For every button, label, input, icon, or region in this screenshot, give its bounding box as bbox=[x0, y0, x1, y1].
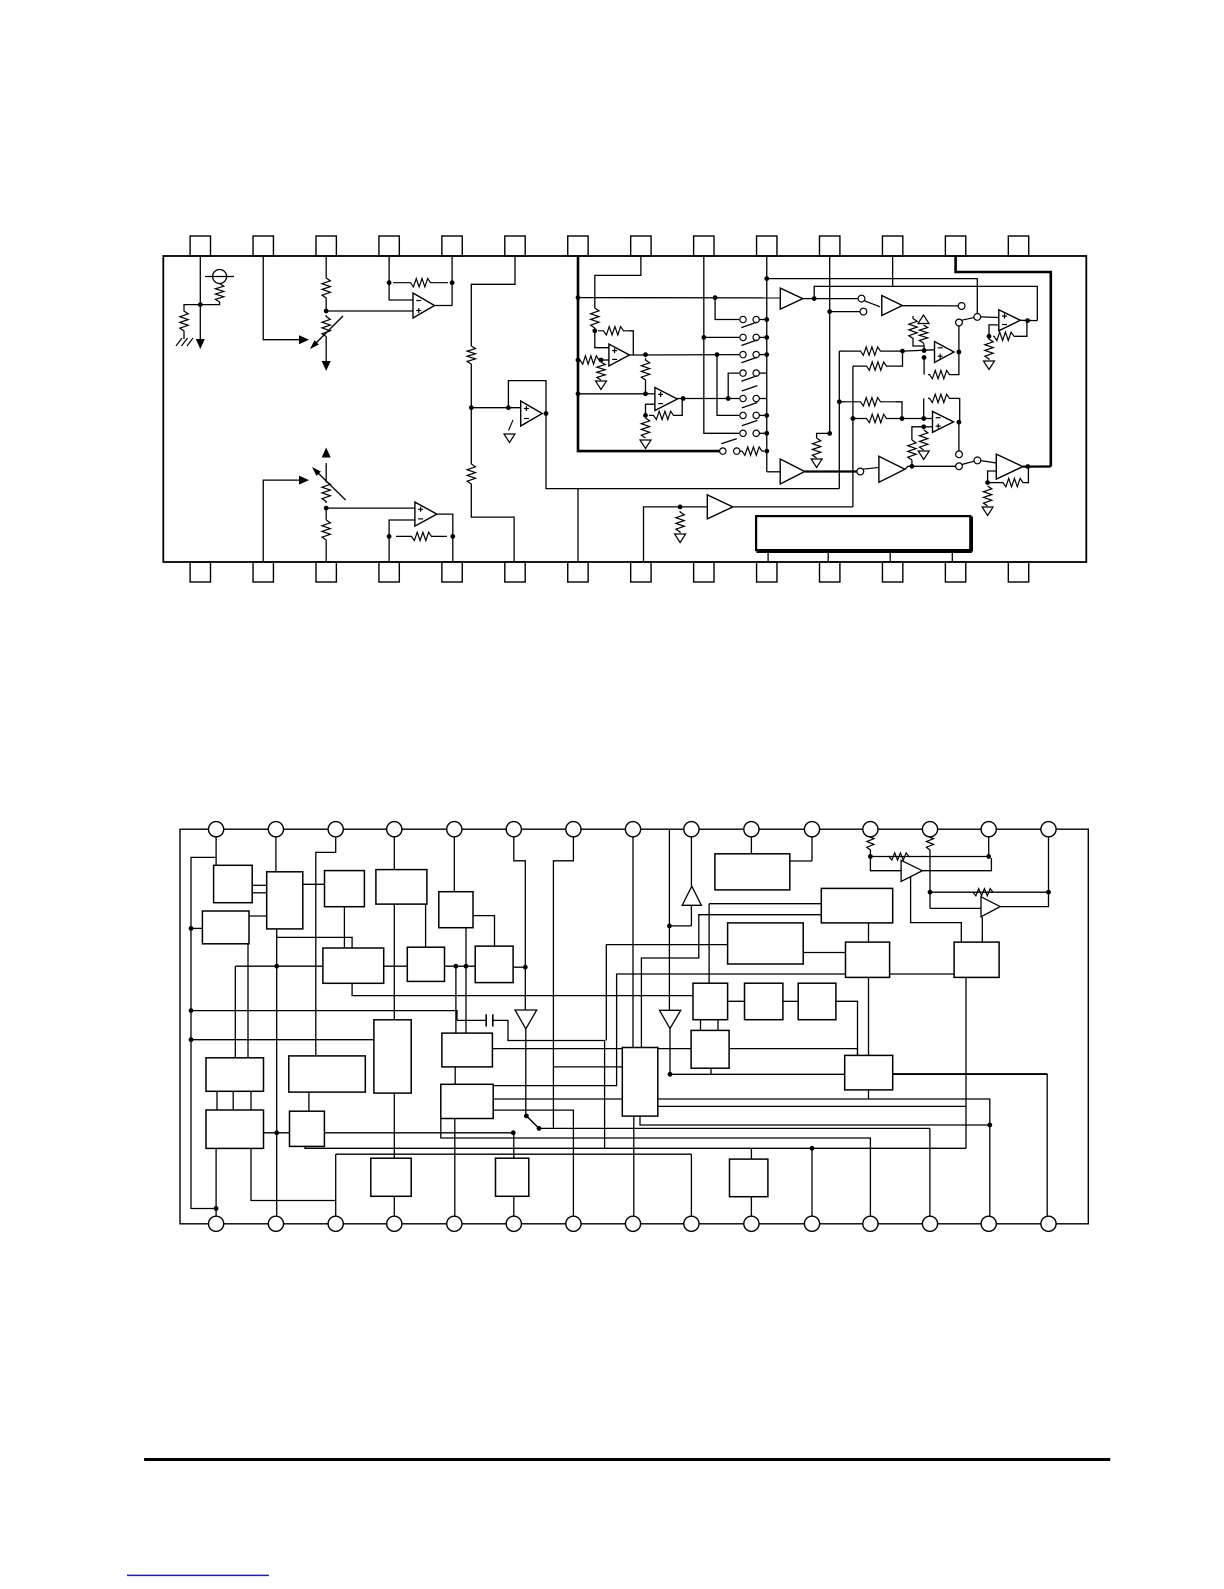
wire S1 bottom bbox=[868, 1090, 870, 1099]
wire amp up out bbox=[690, 829, 692, 886]
wire to U2+ bbox=[471, 407, 520, 409]
wire B3-C3 bbox=[473, 916, 495, 947]
wire T14 riser bbox=[988, 829, 990, 856]
wire R7 node bbox=[594, 328, 596, 331]
wire S10 to U7 bbox=[981, 316, 999, 319]
wire K3-L riser bbox=[308, 1092, 310, 1111]
pin 1 (top) bbox=[190, 236, 210, 256]
switch S7 bbox=[740, 430, 746, 436]
pin 17 (bottom) bbox=[316, 562, 336, 582]
wire amp2 in bbox=[930, 907, 981, 909]
resistor R3 bbox=[322, 277, 330, 299]
wire R5 down bbox=[470, 364, 472, 408]
net cap path bbox=[493, 1020, 605, 1148]
pin 28 (bottom) bbox=[1008, 562, 1028, 582]
U7 fb resistor R15 bbox=[993, 332, 1015, 340]
switch S3 bbox=[740, 351, 746, 357]
node U7 fb bbox=[987, 334, 992, 339]
block C2 bbox=[407, 947, 444, 981]
node UA minus bbox=[922, 348, 927, 353]
wire T15 riser bbox=[1048, 829, 1050, 892]
node b3 bbox=[324, 506, 329, 511]
node N1 bbox=[812, 296, 817, 301]
node S7 bbox=[764, 431, 769, 436]
wire C2 top bbox=[425, 904, 427, 947]
switch S6 right lead bbox=[759, 414, 766, 416]
row D resistor R21 bbox=[853, 418, 857, 420]
wire R3 to node3 bbox=[325, 299, 327, 311]
node h5 b11 bbox=[810, 1146, 815, 1151]
buffer A7 bbox=[707, 495, 733, 519]
block M1 bbox=[442, 1033, 493, 1067]
pin 16 (bottom) bbox=[253, 562, 273, 582]
net band h5 bbox=[305, 1146, 966, 1148]
wire S1 right bbox=[893, 1073, 1047, 1075]
terminal T6 (top) bbox=[506, 822, 521, 837]
wire T13 col bbox=[929, 857, 931, 909]
wire T13 node bbox=[929, 851, 931, 857]
S8 resistor R14 bbox=[740, 447, 764, 455]
block N3 bbox=[730, 1159, 768, 1197]
wire b3 riser bbox=[335, 1154, 337, 1224]
block S1 bbox=[845, 1055, 893, 1090]
res pair RV2 bbox=[918, 315, 929, 324]
op-amp U7 bbox=[999, 310, 1021, 331]
node U3 o1 bbox=[643, 352, 648, 357]
res amp2 fb bbox=[972, 889, 994, 896]
block H1 bbox=[693, 983, 728, 1020]
bus pin13 (thick) bbox=[956, 256, 1051, 467]
block stub 3 bbox=[889, 550, 891, 562]
terminal T22 (bottom) bbox=[566, 1216, 581, 1231]
wire A7 out bbox=[733, 506, 853, 508]
node S1 bbox=[764, 317, 769, 322]
block A3 bbox=[202, 911, 249, 944]
pin 23 (bottom) bbox=[694, 562, 714, 582]
wire row2 feed bbox=[704, 336, 739, 338]
amp1 triangle bbox=[901, 860, 922, 881]
wire b14 riser bbox=[989, 1125, 991, 1224]
wire A5 out bbox=[803, 298, 858, 300]
node B bbox=[599, 358, 604, 363]
block T2 bbox=[622, 1048, 658, 1117]
block P5 bbox=[954, 942, 999, 977]
terminal T15 (top) bbox=[1041, 822, 1056, 837]
node U2 fb bbox=[506, 405, 511, 410]
resistor R7 bbox=[591, 308, 599, 328]
node rowA bbox=[900, 349, 905, 354]
block A1 bbox=[214, 865, 253, 902]
net S1 top bbox=[857, 1049, 859, 1056]
terminal T7 (top) bbox=[566, 822, 581, 837]
block N2 bbox=[496, 1158, 529, 1196]
wire terminal10 drop bbox=[750, 829, 752, 854]
node b4 bbox=[387, 534, 392, 539]
wire U3 out bbox=[629, 354, 739, 356]
U4 minus wire bbox=[646, 404, 655, 415]
wire pin5/U1out bbox=[451, 256, 453, 306]
wire R1 to ground bbox=[183, 334, 185, 339]
pin 5 (top) bbox=[442, 236, 462, 256]
terminal T16 (bottom) bbox=[209, 1216, 224, 1231]
node UA out bbox=[957, 350, 962, 355]
net band h6 bbox=[336, 1153, 692, 1155]
wire C1-C2 link bbox=[384, 965, 408, 967]
buffer A5 bbox=[780, 288, 803, 309]
switch S12 contact b bbox=[956, 463, 963, 470]
terminal T28 (bottom) bbox=[922, 1216, 937, 1231]
rail U7 fb bbox=[814, 286, 1037, 320]
switch S3 right lead bbox=[759, 354, 766, 356]
block C1 bbox=[323, 948, 384, 983]
block P4 bbox=[728, 923, 804, 964]
fb line amp2 bbox=[930, 891, 1049, 893]
res pair RV1 bbox=[909, 316, 917, 341]
net line L1 bbox=[670, 1074, 1047, 1224]
wire terminal4 drop bbox=[393, 829, 395, 869]
wire row6 feed bbox=[717, 355, 739, 416]
switch SW1 lever bbox=[526, 1116, 539, 1129]
net band h4 bbox=[441, 1119, 871, 1224]
net terminal6 col bbox=[514, 829, 526, 1010]
pin 7 (top) bbox=[568, 236, 588, 256]
res terminal12 bbox=[867, 829, 874, 851]
switch S10 contact b bbox=[956, 319, 963, 326]
wire pin6 col lower bbox=[470, 408, 472, 464]
terminal T29 (bottom) bbox=[981, 1216, 996, 1231]
wire nodeA to U3+ bbox=[595, 331, 609, 348]
terminal T21 (bottom) bbox=[506, 1216, 521, 1231]
ground R13 bbox=[640, 440, 651, 449]
pin 21 (bottom) bbox=[568, 562, 588, 582]
block K3 bbox=[289, 1056, 366, 1092]
net band h7 bbox=[658, 1105, 966, 1107]
node amp2 in bbox=[928, 890, 933, 895]
wire H2-H3 bbox=[783, 1000, 798, 1002]
node pin11 b bbox=[827, 431, 832, 436]
wire node to R1 bbox=[184, 305, 200, 308]
wire K2-L bbox=[264, 1132, 290, 1134]
node pin1 bbox=[198, 302, 203, 307]
net edge tap bbox=[668, 829, 670, 1010]
net terminal1 loop bbox=[191, 829, 216, 1208]
wire A8 out thick bbox=[805, 470, 857, 472]
resistor R11 bbox=[641, 358, 649, 382]
pin 12 (top) bbox=[882, 236, 902, 256]
op-amp UB bbox=[933, 411, 954, 432]
wire b9 riser bbox=[690, 1154, 692, 1224]
wire amp1 out bbox=[922, 858, 991, 871]
wire bottom pin8 bbox=[644, 507, 708, 562]
switch S1 bbox=[740, 316, 746, 322]
wire P1-T11 bbox=[790, 860, 812, 862]
pin 3 (top) bbox=[316, 236, 336, 256]
bus pin7 (thick) bbox=[578, 256, 721, 451]
U6 fb bbox=[988, 471, 997, 483]
wire A2-B1 bbox=[303, 883, 325, 885]
node S2 bbox=[764, 335, 769, 340]
pin 19 (bottom) bbox=[442, 562, 462, 582]
VR2 tail arrow bbox=[325, 463, 327, 480]
net terminal8 col bbox=[632, 829, 634, 1047]
UA fb bbox=[923, 358, 925, 375]
node sw1 b bbox=[537, 1126, 542, 1131]
net bias line left bbox=[235, 965, 330, 967]
net band h2 bbox=[493, 1099, 990, 1125]
block B1 bbox=[325, 871, 365, 907]
wire b11 riser bbox=[811, 1148, 813, 1224]
wire pin4 bbox=[388, 256, 390, 283]
resistor R5 bbox=[467, 346, 475, 364]
pin 14 (top) bbox=[1008, 236, 1028, 256]
wire U1 out bbox=[435, 305, 453, 307]
wire UA out up bbox=[958, 326, 960, 352]
wire pin12 riser bbox=[892, 256, 894, 286]
wire K1-K2 b bbox=[232, 1091, 234, 1110]
ground R25 bbox=[675, 534, 686, 543]
wire amp2 out bbox=[1000, 892, 1048, 906]
net sw1 out bbox=[539, 1127, 930, 1129]
node B3 col a bbox=[464, 964, 469, 969]
block H3 bbox=[798, 983, 836, 1020]
wire H1-H4 a bbox=[700, 1020, 702, 1031]
wire b3 bbox=[325, 508, 327, 520]
wire rowA to UA bbox=[903, 350, 935, 351]
wire P5 top bbox=[981, 917, 983, 942]
wire nodeB U3- bbox=[601, 359, 609, 361]
wire B2 bottom col bbox=[393, 904, 395, 1020]
wire nodeC bus bbox=[645, 382, 647, 394]
wire pin10 to top switch bbox=[767, 279, 978, 314]
terminal T1 (top) bbox=[209, 822, 224, 837]
wire pin11 gnd res bbox=[817, 433, 830, 438]
terminal T24 (bottom) bbox=[684, 1216, 699, 1231]
block K1 bbox=[206, 1058, 264, 1092]
wire A1 top bbox=[215, 857, 217, 865]
wire U4 out bbox=[677, 398, 739, 400]
terminal T27 (bottom) bbox=[863, 1216, 878, 1231]
block D1 bbox=[374, 1020, 411, 1093]
wire pin9 col bbox=[704, 256, 739, 433]
node R22 bbox=[910, 464, 915, 469]
node pin3 bbox=[324, 309, 329, 314]
op-amp U6 bbox=[996, 454, 1023, 479]
wire pin10 collector bbox=[766, 256, 768, 472]
wire U8 minus bbox=[389, 520, 415, 536]
terminal T8 (top) bbox=[625, 822, 640, 837]
UB plus wire bbox=[924, 426, 933, 428]
node V1 rowC bbox=[837, 399, 842, 404]
resistor R8 bbox=[598, 327, 629, 335]
wire row1 feed bbox=[715, 298, 739, 320]
block diagram border bbox=[180, 829, 1088, 1224]
amp tri up bbox=[682, 886, 701, 905]
wire H4 bottom bbox=[710, 1068, 712, 1074]
feedback resistor R4 bbox=[393, 279, 448, 287]
pin 26 (bottom) bbox=[882, 562, 902, 582]
node pin4 bbox=[387, 280, 392, 285]
pin 18 (bottom) bbox=[379, 562, 399, 582]
switch S11 contact bbox=[857, 468, 864, 475]
fb resistor R27 bbox=[396, 532, 447, 540]
node pin11 a bbox=[827, 309, 832, 314]
net B3 col bbox=[465, 927, 467, 1033]
node C bbox=[643, 391, 648, 396]
block H2 bbox=[745, 983, 783, 1020]
wire T11 riser bbox=[811, 829, 813, 861]
switch S2 bbox=[740, 334, 746, 340]
terminal T25 (bottom) bbox=[744, 1216, 759, 1231]
wire U2 out down bbox=[546, 414, 839, 489]
wire U6 out bbox=[1023, 465, 1051, 467]
terminal T11 (top) bbox=[804, 822, 819, 837]
wire R2 to node bbox=[200, 302, 219, 305]
buffer A8 bbox=[780, 459, 805, 484]
wire P3 bottom bbox=[868, 977, 870, 1055]
wire terminal5 drop bbox=[453, 829, 455, 892]
ground R10 bbox=[596, 381, 607, 390]
node UB minus bbox=[921, 416, 926, 421]
terminal T18 (bottom) bbox=[328, 1216, 343, 1231]
node C3 right bbox=[523, 965, 528, 970]
node U7 out bbox=[1025, 318, 1030, 323]
terminal T9 (top) bbox=[684, 822, 699, 837]
pin 27 (bottom) bbox=[945, 562, 965, 582]
vert col V1 bbox=[838, 351, 840, 489]
wire bottom pin3 bbox=[325, 540, 327, 562]
node A7 in bbox=[678, 505, 683, 510]
wire pin11 col bbox=[829, 256, 831, 433]
wire P4-P3 bbox=[803, 952, 845, 954]
pin 10 (top) bbox=[757, 236, 777, 256]
UB fb top bbox=[923, 398, 925, 418]
block B3 bbox=[439, 892, 473, 928]
block H4 bbox=[691, 1030, 729, 1068]
node S6 bbox=[764, 413, 769, 418]
wire M1-M2 bbox=[454, 1067, 456, 1084]
wire P5 bottom bbox=[965, 977, 967, 1148]
terminal T12 (top) bbox=[863, 822, 878, 837]
resistor R13 bbox=[641, 418, 649, 438]
node loop tee bbox=[189, 1008, 194, 1013]
switch S4 right lead bbox=[759, 372, 766, 374]
block P1 bbox=[715, 854, 790, 890]
wire N1 bottom bbox=[393, 1196, 395, 1224]
node bias A2 bbox=[274, 964, 279, 969]
IC body outline bbox=[163, 256, 1086, 562]
wire T12 node bbox=[869, 851, 871, 857]
node UB out bbox=[957, 420, 962, 425]
U2 ground switch bbox=[509, 420, 514, 431]
wire C2 down bbox=[455, 966, 457, 1033]
node sw1 a bbox=[524, 1114, 529, 1119]
block B2 bbox=[376, 870, 427, 905]
wire P2-P3 bbox=[868, 923, 870, 942]
op-amp U1 bbox=[413, 293, 435, 318]
op-amp U4 bbox=[655, 388, 678, 411]
wire row4 feed bbox=[728, 373, 739, 398]
wire tap to amp bbox=[669, 925, 691, 927]
resistor R23 bbox=[920, 430, 928, 450]
amp2 triangle bbox=[981, 897, 1000, 917]
wire A1-A2 a bbox=[252, 884, 267, 886]
UB plus branch bbox=[912, 427, 924, 440]
current sink arrow I1 bbox=[199, 305, 201, 339]
terminal T30 (bottom) bbox=[1041, 1216, 1056, 1231]
resistor R10 bbox=[597, 362, 605, 380]
pin 15 (bottom) bbox=[190, 562, 210, 582]
block stub 2 bbox=[827, 550, 829, 562]
node amp1 out bbox=[986, 854, 991, 859]
node bus a bbox=[576, 295, 581, 300]
resistor R26 bbox=[322, 520, 330, 540]
node b14 junction bbox=[987, 1123, 992, 1128]
node U2 in bbox=[469, 405, 474, 410]
wire pin4 to U1- bbox=[389, 283, 413, 300]
node pin9 row2 bbox=[701, 335, 706, 340]
net K2 tail bbox=[251, 1148, 335, 1200]
block C3 bbox=[475, 946, 513, 983]
wire N3 bottom bbox=[750, 1197, 752, 1224]
node V2 rowD bbox=[851, 416, 856, 421]
wire K1-K2 a bbox=[216, 1091, 218, 1110]
switch S11 lever bbox=[863, 467, 880, 469]
row B resistor R19 bbox=[853, 365, 857, 367]
wire pin11 to S9b bbox=[830, 311, 860, 313]
U2 feedback loop bbox=[508, 381, 546, 414]
resistor R17 bbox=[812, 438, 820, 458]
wire amp1 down bbox=[911, 871, 962, 942]
terminal T13 (top) bbox=[922, 822, 937, 837]
net V1 line bbox=[525, 1029, 527, 1115]
node U3 o2 bbox=[715, 352, 720, 357]
switch S12 contact a bbox=[956, 451, 963, 458]
wire A1-A2 b bbox=[252, 892, 267, 894]
wire nodeC U4+ bbox=[646, 393, 655, 395]
wire N2 bottom bbox=[513, 1196, 515, 1224]
switch S4 bbox=[740, 370, 746, 376]
pin 11 (top) bbox=[820, 236, 840, 256]
terminal T23 (bottom) bbox=[625, 1216, 640, 1231]
switch S10 lever bbox=[962, 318, 974, 321]
fb line amp1 bbox=[870, 856, 988, 858]
wire A3 left bbox=[191, 927, 202, 929]
wire H1 col bbox=[708, 904, 710, 984]
net T2 stub bbox=[633, 1116, 635, 1224]
switch S8 bbox=[720, 448, 726, 454]
net delay line bbox=[191, 1011, 457, 1021]
node rail bbox=[713, 295, 718, 300]
pin 25 (bottom) bbox=[820, 562, 840, 582]
res terminal13 bbox=[926, 829, 933, 851]
net long a bbox=[606, 945, 727, 1041]
res amp1 fb bbox=[888, 853, 910, 860]
resistor R24 bbox=[983, 486, 991, 506]
wire K2 bottom bbox=[215, 1148, 217, 1223]
node bus b bbox=[576, 358, 581, 363]
wire N3 top bbox=[750, 1148, 752, 1159]
switch S9 contact b bbox=[860, 308, 867, 315]
resistor R22 bbox=[908, 440, 916, 460]
wire bottom pin2 bbox=[263, 480, 299, 562]
node bus c bbox=[576, 391, 581, 396]
pin 6 (top) bbox=[505, 236, 525, 256]
node U8 fb bbox=[450, 534, 455, 539]
wire RV join bbox=[913, 341, 924, 351]
switch S12 contact c bbox=[974, 457, 981, 464]
net A2 bottom col bbox=[276, 929, 278, 1224]
wire S12 to U6 bbox=[981, 461, 996, 463]
